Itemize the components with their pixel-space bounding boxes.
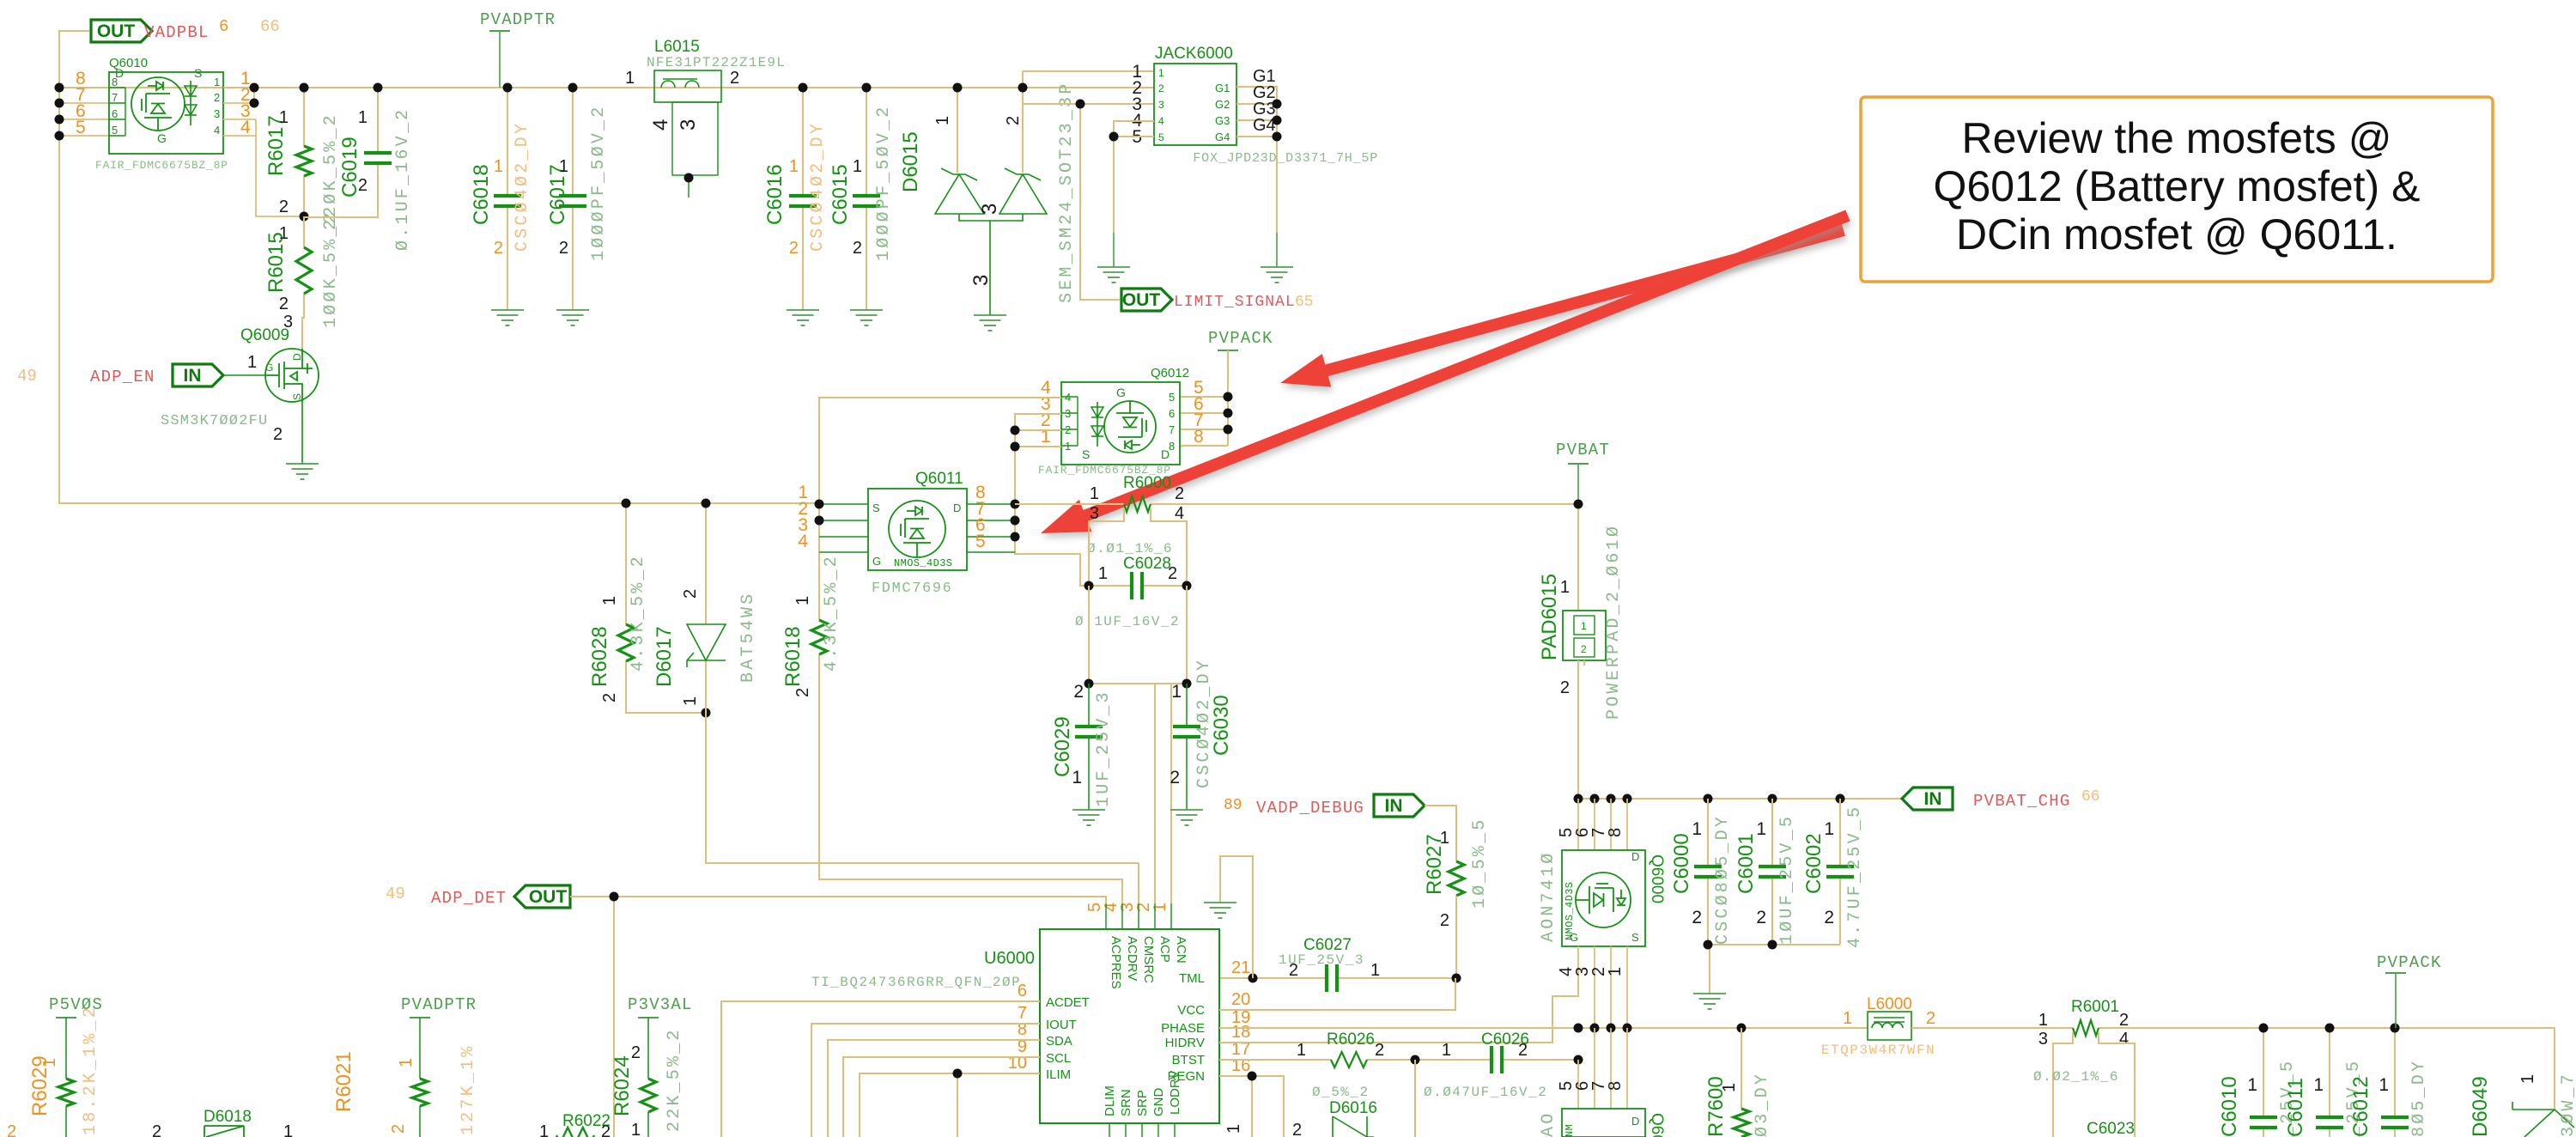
svg-text:R6026: R6026 bbox=[1327, 1031, 1375, 1049]
wire: IOUT bbox=[811, 1024, 1040, 1137]
svg-text:1: 1 bbox=[1692, 819, 1702, 839]
svg-text:5: 5 bbox=[1158, 131, 1164, 143]
svg-text:SSM3K7ØØ2FU: SSM3K7ØØ2FU bbox=[161, 413, 268, 429]
wire: kelvin verticals to ACP/ACN and y=796 rail bbox=[1089, 586, 1187, 903]
svg-text:PVADPTR: PVADPTR bbox=[401, 995, 477, 1014]
svg-text:1: 1 bbox=[397, 1058, 416, 1067]
svg-text:R6028: R6028 bbox=[588, 626, 611, 687]
svg-text:D: D bbox=[1631, 850, 1639, 863]
capacitor C6028 bbox=[1089, 585, 1187, 587]
wire: jack pins 4,5 to ground bbox=[1114, 121, 1154, 233]
svg-text:Ø.Ø2_1%_6: Ø.Ø2_1%_6 bbox=[2033, 1069, 2119, 1085]
ground below C6030 bbox=[1170, 810, 1203, 825]
svg-text:IOUT: IOUT bbox=[1046, 1018, 1077, 1032]
svg-text:2: 2 bbox=[1560, 678, 1570, 697]
svg-text:1: 1 bbox=[600, 596, 619, 605]
wire: ILIM bbox=[860, 1073, 1040, 1137]
svg-text:C6011: C6011 bbox=[2284, 1078, 2307, 1137]
svg-text:PVPACK: PVPACK bbox=[2377, 953, 2442, 972]
svg-text:FDMC7696: FDMC7696 bbox=[872, 581, 952, 597]
svg-text:2: 2 bbox=[1168, 564, 1177, 583]
svg-text:4.3K_5%_2: 4.3K_5%_2 bbox=[629, 554, 648, 672]
wire: adapter input net (top horizontal y=102) bbox=[59, 87, 1154, 88]
Q6011 left stubs bbox=[819, 504, 868, 552]
svg-text:ACDRV: ACDRV bbox=[1125, 936, 1139, 981]
svg-text:8: 8 bbox=[1606, 828, 1625, 837]
svg-text:1UF_25V_3: 1UF_25V_3 bbox=[1094, 690, 1114, 807]
svg-text:G4: G4 bbox=[1253, 116, 1276, 135]
ground below C6000 bbox=[1693, 994, 1726, 1009]
svg-text:2: 2 bbox=[1926, 1009, 1935, 1028]
svg-text:D: D bbox=[953, 502, 961, 514]
svg-text:127K_1%: 127K_1% bbox=[459, 1044, 478, 1135]
svg-text:2: 2 bbox=[1581, 643, 1587, 655]
svg-text:D: D bbox=[291, 353, 303, 361]
svg-text:1: 1 bbox=[283, 1122, 293, 1137]
svg-text:DLIM: DLIM bbox=[1103, 1085, 1117, 1116]
svg-text:Ø.1UF_16V_2: Ø.1UF_16V_2 bbox=[1075, 614, 1180, 629]
wire: PHASE rail bbox=[1219, 1027, 1868, 1029]
svg-text:2: 2 bbox=[793, 688, 812, 697]
resistor R6027 bbox=[1449, 861, 1464, 896]
capacitor C6030 bbox=[1186, 684, 1188, 810]
svg-text:2: 2 bbox=[1440, 911, 1449, 930]
resistor R6021 bbox=[419, 1018, 421, 1137]
svg-text:HIDRV: HIDRV bbox=[1165, 1036, 1205, 1050]
wire: Q6009 source to ground bbox=[301, 402, 303, 464]
svg-text:FOX_JPD23D_D3371_7H_5P: FOX_JPD23D_D3371_7H_5P bbox=[1193, 151, 1378, 166]
U6000 bottom stubs bbox=[1109, 1123, 1175, 1137]
svg-text:66: 66 bbox=[260, 17, 280, 36]
svg-text:SRP: SRP bbox=[1135, 1090, 1150, 1116]
svg-text:4: 4 bbox=[649, 119, 672, 131]
svg-text:AON741Ø: AON741Ø bbox=[1539, 851, 1558, 942]
svg-text:Q6012 (Battery mosfet) &: Q6012 (Battery mosfet) & bbox=[1934, 162, 2421, 210]
svg-text:4: 4 bbox=[240, 118, 251, 137]
Q6010 internal mosfet symbol bbox=[131, 77, 185, 131]
wire: ACDET bbox=[721, 1001, 1040, 1137]
svg-text:VCC: VCC bbox=[1177, 1003, 1205, 1018]
svg-text:C6015: C6015 bbox=[829, 164, 852, 225]
svg-text:1ØØØPF_5ØV_2: 1ØØØPF_5ØV_2 bbox=[874, 105, 894, 261]
svg-text:2: 2 bbox=[494, 239, 503, 258]
resistor R6000 bbox=[1124, 496, 1151, 512]
svg-text:3: 3 bbox=[1090, 504, 1099, 523]
out flag ADP_DET bbox=[514, 885, 570, 908]
svg-text:ADP_EN: ADP_EN bbox=[90, 368, 155, 386]
svg-text:2: 2 bbox=[1004, 116, 1023, 125]
svg-text:1: 1 bbox=[1072, 768, 1082, 787]
resistor R6026 bbox=[1331, 1052, 1367, 1067]
svg-text:C6001: C6001 bbox=[1735, 833, 1758, 894]
svg-text:ETQP3W4R7WFN: ETQP3W4R7WFN bbox=[1821, 1043, 1935, 1058]
svg-text:C6028: C6028 bbox=[1123, 555, 1171, 573]
ground on TML filter bbox=[1204, 903, 1236, 918]
svg-text:1: 1 bbox=[853, 157, 862, 176]
wire: HIDRV bbox=[1219, 979, 1578, 1043]
ground below C6018 bbox=[491, 310, 524, 325]
capacitor C6019 bbox=[304, 88, 378, 217]
capacitor C6001 bbox=[1771, 799, 1773, 945]
svg-text:C6002: C6002 bbox=[1802, 833, 1826, 894]
svg-text:2: 2 bbox=[2119, 1011, 2129, 1030]
svg-text:FAIR_FDMC6675BZ_8P: FAIR_FDMC6675BZ_8P bbox=[95, 159, 228, 172]
svg-text:1: 1 bbox=[789, 157, 799, 176]
svg-text:8: 8 bbox=[1169, 440, 1175, 453]
wire: Q6012 pins 1-3 to Q6011 drain bus x=1182 bbox=[1015, 414, 1087, 586]
resistor R6029 bbox=[65, 1018, 67, 1137]
svg-text:D6016: D6016 bbox=[1329, 1099, 1377, 1117]
svg-text:G: G bbox=[157, 131, 167, 145]
svg-text:6: 6 bbox=[219, 17, 228, 36]
svg-text:ACN: ACN bbox=[1174, 936, 1188, 964]
wire: PVBAT_CHG rail y=930 bbox=[1578, 798, 1911, 800]
svg-text:8: 8 bbox=[1606, 1081, 1625, 1091]
svg-text:6: 6 bbox=[1018, 982, 1027, 1000]
svg-text:1: 1 bbox=[1090, 484, 1099, 503]
svg-text:PVBAT: PVBAT bbox=[1556, 441, 1610, 459]
svg-text:NM: NM bbox=[1564, 1124, 1576, 1137]
svg-text:1: 1 bbox=[1297, 1041, 1306, 1060]
svg-text:1: 1 bbox=[1224, 1124, 1243, 1134]
capacitor C6000 bbox=[1707, 799, 1709, 945]
svg-text:1: 1 bbox=[1098, 564, 1108, 583]
capacitor C6026 bbox=[1492, 1046, 1502, 1073]
diode D6017 bbox=[706, 503, 1139, 863]
ground below C6015 bbox=[850, 310, 883, 325]
wire: cap bottoms to ground bbox=[1708, 945, 1840, 994]
annotation callout box bbox=[1861, 97, 2493, 282]
in flag VADP_DEBUG bbox=[1374, 794, 1425, 817]
junction dots Q6010 left pins bbox=[55, 83, 64, 93]
svg-text:1: 1 bbox=[40, 1058, 59, 1067]
svg-text:3: 3 bbox=[1158, 99, 1164, 111]
Q6011 right stubs to drain bus bbox=[967, 504, 1015, 552]
L6015 secondary winding bbox=[672, 102, 718, 175]
svg-text:Q6009: Q6009 bbox=[240, 326, 289, 344]
transistor Q6010 body bbox=[109, 72, 223, 154]
svg-text:2: 2 bbox=[7, 1122, 16, 1137]
svg-text:OUT: OUT bbox=[1122, 290, 1161, 310]
svg-text:C6029: C6029 bbox=[1051, 716, 1074, 777]
wire: ACPRES from ADP_DET bbox=[614, 897, 1106, 903]
svg-text:4: 4 bbox=[214, 124, 220, 137]
svg-text:8: 8 bbox=[112, 76, 118, 88]
in flag PVBAT_CHG bbox=[1902, 787, 1953, 810]
svg-text:ILIM: ILIM bbox=[1046, 1067, 1071, 1082]
svg-text:2: 2 bbox=[789, 239, 799, 258]
svg-text:1: 1 bbox=[1843, 1009, 1852, 1028]
svg-text:3: 3 bbox=[677, 119, 700, 131]
svg-text:R6021: R6021 bbox=[332, 1051, 355, 1112]
resistor R6018 bbox=[811, 620, 827, 654]
svg-text:3ØW_7: 3ØW_7 bbox=[2559, 1072, 2576, 1137]
wire: PVPACK to Q6012 right pins bbox=[1180, 350, 1228, 446]
svg-text:Ø_5%_2: Ø_5%_2 bbox=[1312, 1085, 1370, 1100]
svg-text:89: 89 bbox=[1224, 797, 1242, 814]
wire: jack shield pins G1-G4 bbox=[1236, 87, 1277, 233]
in flag ADP_EN bbox=[173, 364, 223, 386]
svg-text:OUT: OUT bbox=[97, 21, 136, 41]
svg-text:C6012: C6012 bbox=[2349, 1076, 2372, 1137]
svg-text:BTST: BTST bbox=[1172, 1053, 1205, 1067]
svg-text:C6018: C6018 bbox=[470, 164, 493, 225]
svg-text:20: 20 bbox=[1231, 990, 1250, 1009]
ground below jack shield bbox=[1261, 267, 1293, 283]
capacitor C6017 bbox=[572, 88, 574, 310]
Q6012 internal body diodes bbox=[1091, 402, 1103, 447]
svg-text:G: G bbox=[1116, 386, 1126, 399]
resistor R6028 bbox=[626, 503, 706, 713]
svg-text:2: 2 bbox=[214, 91, 220, 104]
svg-text:49: 49 bbox=[17, 367, 37, 386]
svg-text:1: 1 bbox=[1151, 903, 1170, 912]
ground below C6029 bbox=[1072, 810, 1105, 825]
wire: PAD6015 to battery charge rail bbox=[1578, 660, 1584, 799]
svg-text:R6000: R6000 bbox=[1123, 474, 1171, 492]
svg-text:2: 2 bbox=[1175, 484, 1184, 503]
svg-text:2: 2 bbox=[1289, 961, 1298, 980]
svg-text:NMOS_4D3S: NMOS_4D3S bbox=[894, 557, 952, 569]
out flag VADPBL bbox=[91, 20, 152, 42]
svg-text:BAT54WS: BAT54WS bbox=[738, 592, 758, 683]
svg-text:2: 2 bbox=[1292, 1121, 1302, 1137]
svg-text:2: 2 bbox=[1073, 682, 1084, 702]
svg-text:PAD6015: PAD6015 bbox=[1538, 574, 1561, 660]
svg-text:2: 2 bbox=[730, 69, 739, 88]
U6000 top pin stubs bbox=[1106, 903, 1171, 929]
svg-text:TI_BQ24736RGRR_QFN_2ØP: TI_BQ24736RGRR_QFN_2ØP bbox=[811, 975, 1021, 990]
svg-text:S: S bbox=[872, 502, 880, 514]
svg-text:8: 8 bbox=[1194, 427, 1204, 447]
svg-text:PHASE: PHASE bbox=[1161, 1021, 1205, 1036]
wire: ACP / ACN drops bbox=[1155, 903, 1171, 904]
svg-text:1: 1 bbox=[933, 116, 952, 125]
svg-text:1: 1 bbox=[793, 596, 812, 605]
svg-text:CSCØ4Ø2_DY: CSCØ4Ø2_DY bbox=[1194, 658, 1214, 788]
out flag LIMIT_SIGNAL bbox=[1121, 289, 1172, 311]
svg-text:SDA: SDA bbox=[1046, 1034, 1072, 1049]
svg-text:2: 2 bbox=[1824, 908, 1834, 927]
svg-text:Ø3_DY: Ø3_DY bbox=[1753, 1072, 1772, 1137]
wire: TML net bbox=[1219, 977, 1456, 979]
svg-text:2: 2 bbox=[601, 1122, 611, 1137]
svg-text:LODRV: LODRV bbox=[1168, 1071, 1182, 1115]
svg-text:PVBAT_CHG: PVBAT_CHG bbox=[1973, 792, 2070, 811]
svg-text:Q6012: Q6012 bbox=[1151, 366, 1189, 380]
svg-text:2: 2 bbox=[1375, 1041, 1384, 1060]
svg-text:21: 21 bbox=[1231, 958, 1250, 977]
resistor R6001 bbox=[2073, 1020, 2099, 1036]
svg-text:1: 1 bbox=[1720, 1083, 1739, 1092]
svg-text:22K_5%_2: 22K_5%_2 bbox=[665, 1027, 684, 1132]
svg-text:1ØØØPF_5ØV_2: 1ØØØPF_5ØV_2 bbox=[589, 105, 609, 261]
svg-text:G: G bbox=[872, 555, 881, 568]
svg-text:G1: G1 bbox=[1215, 82, 1230, 94]
transistor Q6011 body bbox=[868, 489, 967, 570]
svg-text:3: 3 bbox=[214, 107, 220, 120]
wire: Q6012 gate drive net (pin4 left, down x=954) bbox=[819, 398, 1061, 863]
svg-text:SEM_SM24_SOT23_3P: SEM_SM24_SOT23_3P bbox=[1057, 82, 1077, 303]
svg-text:1: 1 bbox=[625, 69, 635, 88]
svg-text:1: 1 bbox=[2247, 1075, 2257, 1095]
svg-text:Q6011: Q6011 bbox=[915, 470, 963, 488]
svg-text:Ø.1UF_16V_2: Ø.1UF_16V_2 bbox=[393, 107, 413, 251]
svg-text:C6016: C6016 bbox=[763, 164, 787, 225]
wire: ACDRV gate drive bbox=[819, 863, 1122, 903]
svg-text:NMOS_4D3S: NMOS_4D3S bbox=[1564, 882, 1576, 940]
wire: VCC joins TML node bbox=[1219, 978, 1455, 1010]
svg-text:ACDET: ACDET bbox=[1046, 995, 1090, 1010]
svg-text:IN: IN bbox=[1924, 789, 1942, 809]
wire: bootstrap vertical bbox=[1414, 1060, 1416, 1137]
svg-text:LIMIT_SIGNAL: LIMIT_SIGNAL bbox=[1174, 294, 1296, 311]
svg-text:R6018: R6018 bbox=[781, 626, 805, 687]
svg-text:1: 1 bbox=[559, 157, 568, 176]
svg-text:4: 4 bbox=[2119, 1030, 2129, 1049]
svg-text:5: 5 bbox=[112, 124, 118, 137]
svg-text:C6027: C6027 bbox=[1303, 936, 1352, 954]
svg-text:ADP_DET: ADP_DET bbox=[431, 889, 507, 908]
wire: ADP_EN to Q6009 gate bbox=[223, 374, 267, 376]
svg-text:2: 2 bbox=[279, 295, 289, 313]
svg-text:Q600: Q600 bbox=[1648, 1113, 1666, 1137]
svg-text:1: 1 bbox=[279, 108, 289, 127]
capacitor C6016 bbox=[802, 88, 804, 310]
capacitor C6002 bbox=[1839, 799, 1841, 945]
svg-text:1: 1 bbox=[1171, 682, 1182, 702]
Q6000 bottom stubs bbox=[1578, 946, 1627, 1028]
Q6010 inner pin bus bbox=[109, 88, 125, 136]
svg-text:1: 1 bbox=[1756, 819, 1766, 839]
svg-text:2: 2 bbox=[273, 425, 283, 444]
svg-text:G4: G4 bbox=[1215, 131, 1230, 143]
resistor R6015 bbox=[302, 216, 304, 349]
svg-text:GND: GND bbox=[1151, 1088, 1166, 1117]
transistor Q6001 (partial at page edge) bbox=[1578, 1028, 1627, 1109]
svg-text:1: 1 bbox=[631, 1121, 641, 1137]
svg-text:4: 4 bbox=[1065, 391, 1071, 404]
svg-text:IN: IN bbox=[184, 366, 202, 386]
svg-text:NFE31PT222Z1E9L: NFE31PT222Z1E9L bbox=[647, 55, 786, 70]
red annotation arrow to Q6011 bbox=[1041, 216, 1848, 533]
svg-text:S: S bbox=[1082, 447, 1090, 461]
wire: BTST row bbox=[1219, 1059, 1578, 1061]
svg-text:18.2K_1%_2: 18.2K_1%_2 bbox=[81, 1005, 100, 1135]
wire: ADP_DET vertical bbox=[570, 897, 614, 1137]
svg-text:3: 3 bbox=[2038, 1030, 2048, 1049]
capacitor C6010 bbox=[2263, 1028, 2264, 1137]
transistor Q6000 bbox=[1578, 799, 1627, 850]
svg-text:S: S bbox=[1631, 931, 1639, 944]
svg-text:7: 7 bbox=[1169, 423, 1175, 436]
svg-text:7: 7 bbox=[112, 91, 118, 104]
svg-text:1ØUF_25V_5: 1ØUF_25V_5 bbox=[1777, 814, 1797, 945]
svg-text:G3: G3 bbox=[1215, 114, 1230, 127]
wire: Q6010 left pin stubs bbox=[59, 88, 109, 136]
svg-text:G: G bbox=[265, 362, 273, 374]
svg-text:D6017: D6017 bbox=[653, 626, 676, 687]
Q6012 inner bus bbox=[1061, 397, 1078, 446]
svg-text:65: 65 bbox=[1295, 294, 1314, 311]
svg-text:1: 1 bbox=[358, 108, 368, 127]
svg-text:2: 2 bbox=[1065, 423, 1071, 436]
svg-text:3: 3 bbox=[1065, 407, 1071, 420]
svg-text:3: 3 bbox=[978, 204, 1001, 215]
svg-text:2: 2 bbox=[279, 198, 289, 216]
transistor Q6012 body bbox=[1061, 382, 1180, 465]
wire: Q6010 right pins to adapter net bbox=[223, 88, 254, 103]
svg-text:CMSRC: CMSRC bbox=[1141, 936, 1156, 983]
svg-text:2: 2 bbox=[152, 1122, 161, 1137]
capacitor C6029 bbox=[1088, 684, 1090, 810]
svg-text:C6000: C6000 bbox=[1670, 833, 1693, 894]
svg-text:AO: AO bbox=[1539, 1111, 1558, 1137]
Q6012 internal mosfet symbol bbox=[1104, 401, 1156, 453]
wire: SCL bbox=[843, 1057, 1040, 1137]
ground below jack pins 4/5 bbox=[1097, 267, 1130, 283]
capacitor C6015 bbox=[866, 88, 867, 310]
svg-text:1: 1 bbox=[1370, 961, 1380, 980]
wire: VADP_DEBUG to R6027 bbox=[1425, 806, 1456, 861]
svg-text:2: 2 bbox=[358, 176, 368, 195]
svg-text:2: 2 bbox=[1756, 908, 1766, 927]
R6001 kelvin bracket bbox=[2053, 1032, 2135, 1137]
svg-text:1: 1 bbox=[1581, 620, 1587, 632]
svg-text:POWERPAD_2_Ø61Ø: POWERPAD_2_Ø61Ø bbox=[1604, 524, 1624, 720]
svg-text:L6015: L6015 bbox=[654, 38, 700, 56]
svg-text:TML: TML bbox=[1179, 971, 1205, 986]
svg-text:1: 1 bbox=[494, 157, 503, 176]
svg-text:1: 1 bbox=[214, 76, 220, 88]
svg-text:PVPACK: PVPACK bbox=[1208, 329, 1273, 348]
diode D6015 (dual TVS) bbox=[957, 71, 1023, 173]
svg-text:2: 2 bbox=[600, 693, 619, 702]
svg-text:1: 1 bbox=[2313, 1075, 2324, 1095]
svg-text:1: 1 bbox=[1560, 578, 1570, 597]
svg-text:1: 1 bbox=[279, 224, 289, 243]
ground below C6017 bbox=[556, 310, 589, 325]
wire: system node y=587 from drain bus to PVBAT bbox=[1015, 503, 1578, 505]
svg-text:G2: G2 bbox=[1215, 98, 1230, 111]
svg-text:1: 1 bbox=[1065, 440, 1071, 453]
svg-text:2: 2 bbox=[853, 239, 862, 258]
wire: PHASE after L6000 to PVPACK rail bbox=[1911, 1028, 2555, 1110]
Q6010 internal body diodes bbox=[185, 81, 197, 125]
svg-text:6: 6 bbox=[1169, 407, 1175, 420]
svg-text:D: D bbox=[1631, 1115, 1639, 1128]
svg-text:U6000: U6000 bbox=[984, 949, 1035, 968]
wire: REGN bbox=[1219, 1076, 1284, 1137]
svg-text:Ø.Ø47UF_16V_2: Ø.Ø47UF_16V_2 bbox=[1424, 1085, 1547, 1100]
svg-text:5: 5 bbox=[1169, 391, 1175, 404]
svg-text:2: 2 bbox=[559, 239, 568, 258]
svg-text:1: 1 bbox=[2379, 1075, 2389, 1095]
svg-text:1Ø_5%_5: 1Ø_5%_5 bbox=[1470, 818, 1490, 909]
svg-text:2: 2 bbox=[1518, 1041, 1528, 1060]
svg-text:1: 1 bbox=[2038, 1011, 2048, 1030]
svg-text:C6010: C6010 bbox=[2218, 1076, 2241, 1137]
wire: SDA bbox=[828, 1040, 1040, 1137]
svg-text:SCL: SCL bbox=[1046, 1051, 1071, 1066]
svg-text:4.3K_5%_2: 4.3K_5%_2 bbox=[822, 554, 841, 672]
resistor R7600 (partial) bbox=[1741, 1028, 1742, 1109]
ground below Q6009 bbox=[286, 464, 319, 479]
svg-text:4: 4 bbox=[798, 532, 808, 551]
svg-text:4: 4 bbox=[1158, 115, 1164, 127]
svg-text:1: 1 bbox=[247, 353, 257, 372]
svg-text:CSCØ4Ø2_DY: CSCØ4Ø2_DY bbox=[513, 121, 532, 252]
